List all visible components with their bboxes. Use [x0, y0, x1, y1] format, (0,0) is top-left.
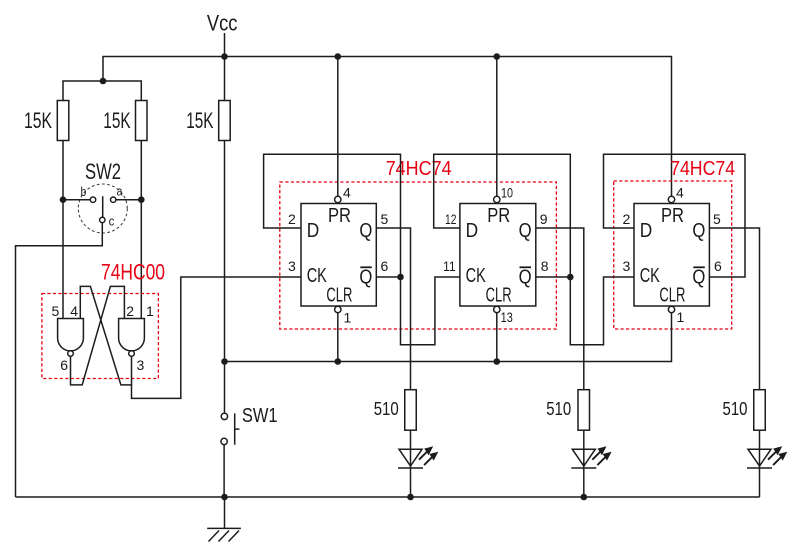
svg-text:b: b: [81, 184, 87, 199]
svg-text:D: D: [307, 220, 320, 242]
wire resistor3 to LED3 to rail: [759, 430, 761, 497]
wire staple NAND pin4 to pin3: [80, 286, 131, 385]
led D2: [571, 446, 611, 468]
svg-text:6: 6: [714, 258, 722, 274]
wire FF3 D feedback jumper to Qbar: [604, 154, 746, 277]
node junction ground column: [221, 494, 228, 501]
wire SW2 contact b: [63, 199, 90, 201]
led D3: [747, 446, 787, 468]
svg-text:D: D: [466, 220, 479, 242]
svg-text:3: 3: [288, 258, 296, 274]
resistor 15K left: [24, 101, 69, 141]
svg-text:1: 1: [344, 310, 352, 326]
node junction a column: [138, 196, 145, 203]
flip-flop U3A body: [634, 196, 709, 312]
svg-text:a: a: [117, 184, 123, 199]
resistor 15K right: [186, 101, 230, 141]
wire top power rail to FF3 PR: [103, 57, 672, 197]
svg-text:13: 13: [501, 309, 513, 325]
node junction left resistor rail: [100, 78, 107, 85]
svg-text:CLR: CLR: [486, 285, 512, 307]
svg-text:5: 5: [52, 303, 60, 319]
svg-text:PR: PR: [661, 205, 684, 227]
wire rail to left resistors: [63, 81, 141, 101]
svg-text:SW2: SW2: [85, 159, 121, 184]
svg-text:Q: Q: [519, 220, 532, 242]
svg-text:4: 4: [343, 185, 351, 201]
node junction SW1 top: [221, 358, 228, 365]
svg-text:74HC74: 74HC74: [670, 158, 735, 180]
svg-text:CLR: CLR: [659, 285, 685, 307]
wire bottom ground rail: [16, 496, 760, 498]
wire left column resistor to NAND pin 5: [62, 141, 64, 319]
wire middle column resistor to NAND pin 1: [140, 141, 142, 319]
svg-text:10: 10: [501, 185, 513, 201]
wire resistor1 to LED1 to rail: [410, 430, 412, 497]
led D1: [398, 446, 438, 468]
resistor 510 second: [546, 390, 589, 431]
node junction FF1 PR rail: [335, 53, 342, 60]
resistor 510 third: [723, 390, 766, 431]
svg-text:SW1: SW1: [242, 405, 278, 427]
svg-text:PR: PR: [328, 205, 351, 227]
wire SW2 common c to left rail down: [16, 223, 103, 497]
wire FF3 Q to resistor column 3: [709, 228, 759, 390]
svg-text:3: 3: [137, 357, 145, 373]
svg-text:9: 9: [540, 211, 548, 227]
svg-text:PR: PR: [487, 205, 510, 227]
svg-text:2: 2: [288, 211, 296, 227]
svg-text:Q: Q: [359, 267, 372, 289]
node junction LED1 rail: [407, 494, 414, 501]
wire NAND pin3 output to FF1 CK: [132, 277, 302, 398]
resistor 15K middle: [103, 101, 147, 141]
svg-text:c: c: [109, 214, 115, 229]
switch SW2: [78, 159, 127, 233]
nand-gate U1B: [119, 319, 145, 357]
svg-text:D: D: [640, 220, 653, 242]
svg-text:11: 11: [443, 258, 456, 274]
svg-text:6: 6: [381, 258, 389, 274]
svg-text:1: 1: [677, 309, 685, 325]
svg-text:Q: Q: [692, 220, 705, 242]
boundary 74HC74 dashed box FF3: [614, 181, 732, 329]
wire FF2 PR: [496, 57, 498, 197]
node junction b column: [60, 196, 67, 203]
svg-text:4: 4: [676, 185, 684, 201]
boundary 74HC74 dashed box FF1 FF2: [280, 182, 557, 329]
wire FF2 Q to resistor column 2: [536, 228, 584, 390]
svg-text:CK: CK: [640, 265, 661, 287]
svg-text:15K: 15K: [103, 108, 131, 133]
wire FF1 CLR: [337, 313, 339, 362]
node junction Vcc-rail: [221, 53, 228, 60]
wire staple NAND pin2 to pin6: [71, 286, 125, 385]
svg-text:510: 510: [374, 399, 399, 419]
svg-text:2: 2: [126, 303, 134, 319]
wire resistor2 to LED2 to rail: [583, 430, 585, 497]
node junction LED2 rail: [581, 494, 588, 501]
wire SW2 contact a: [116, 199, 141, 201]
svg-text:3: 3: [623, 258, 631, 274]
node junction FF2 Qbar: [567, 274, 574, 281]
node junction FF2 CLR rail: [494, 358, 501, 365]
wire Vcc column resistor to SW1: [224, 141, 226, 362]
boundary 74HC00 dashed box: [42, 294, 158, 379]
wire FF2 D feedback jumper to FF3 CK: [434, 154, 634, 344]
svg-text:2: 2: [623, 211, 631, 227]
svg-text:4: 4: [70, 303, 78, 319]
nand-gate U1A: [58, 319, 84, 357]
svg-text:CK: CK: [307, 265, 328, 287]
svg-text:Q: Q: [519, 267, 532, 289]
svg-text:8: 8: [541, 258, 549, 274]
node junction FF2 PR rail: [494, 53, 501, 60]
ground: [207, 497, 241, 542]
switch SW1: [221, 362, 278, 498]
flip-flop U2B body: [460, 196, 536, 312]
wire FF1 Qbar stub: [376, 276, 400, 278]
svg-text:Vcc: Vcc: [207, 11, 238, 36]
svg-text:510: 510: [546, 399, 571, 419]
resistor 510 first: [374, 390, 417, 431]
svg-text:15K: 15K: [186, 108, 213, 133]
svg-text:12: 12: [445, 211, 457, 227]
svg-text:5: 5: [713, 211, 721, 227]
svg-text:CLR: CLR: [326, 285, 352, 307]
node junction FF1 Qbar: [397, 274, 404, 281]
svg-text:CK: CK: [466, 265, 487, 287]
svg-text:74HC00: 74HC00: [101, 260, 165, 285]
svg-text:1: 1: [146, 303, 154, 319]
svg-text:74HC74: 74HC74: [386, 158, 452, 180]
svg-text:Q: Q: [359, 220, 372, 242]
svg-text:6: 6: [60, 357, 68, 373]
wire FF2 Qbar stub: [536, 276, 571, 278]
wire FF2 CLR: [496, 313, 498, 362]
wire FF1 D feedback jumper to FF2 CK: [264, 154, 460, 344]
svg-text:15K: 15K: [24, 108, 52, 133]
svg-text:Q: Q: [692, 267, 705, 289]
wire FF1 PR: [337, 57, 339, 197]
wire Vcc lead: [224, 33, 226, 101]
wire FF1 Q to resistor column 1: [376, 228, 410, 390]
svg-text:5: 5: [381, 211, 389, 227]
node junction FF1 CLR rail: [335, 358, 342, 365]
svg-text:510: 510: [723, 399, 748, 419]
wire CLR rail from SW1 to FF3 CLR: [225, 313, 672, 362]
flip-flop U2A body: [301, 196, 376, 312]
